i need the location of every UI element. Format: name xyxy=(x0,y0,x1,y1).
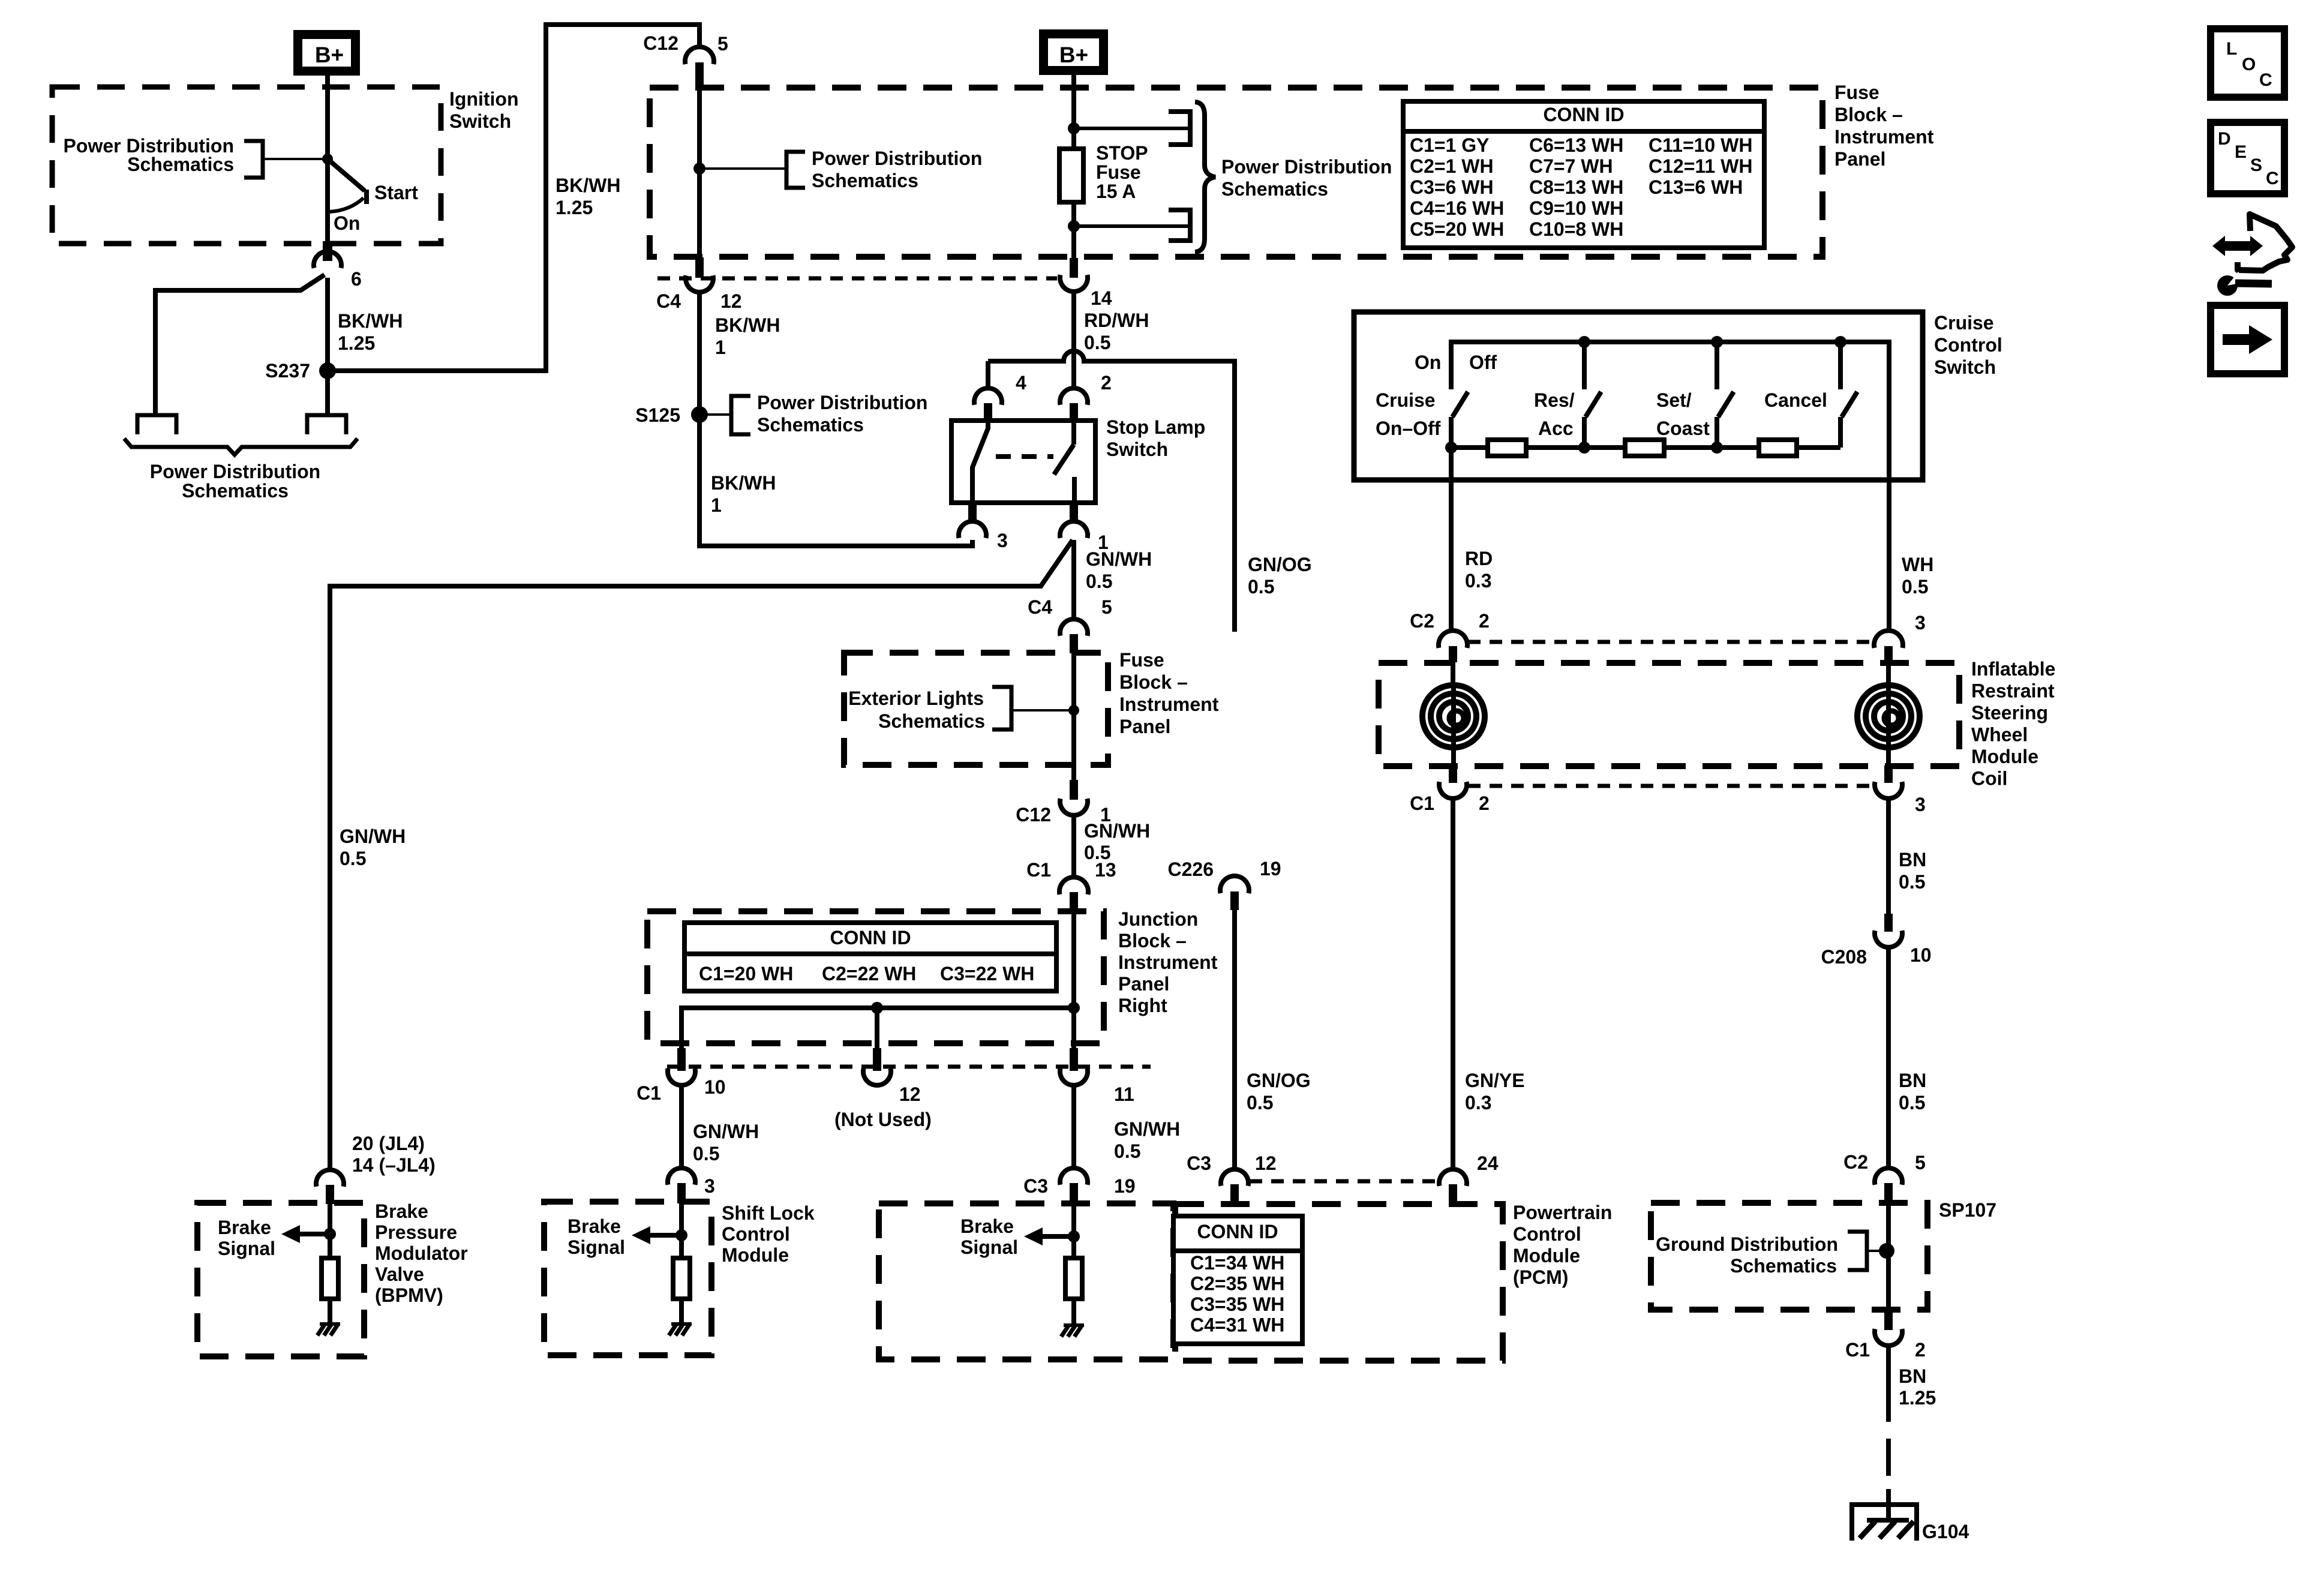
svg-text:Schematics: Schematics xyxy=(127,154,234,175)
power feed B+ (stop fuse) xyxy=(1044,34,1104,71)
svg-text:5: 5 xyxy=(1101,596,1112,618)
svg-text:On: On xyxy=(334,212,360,234)
power feed B+ (ignition switch) xyxy=(298,35,356,71)
svg-text:RD: RD xyxy=(1465,548,1493,569)
svg-text:12: 12 xyxy=(1255,1152,1277,1174)
svg-text:C4=16 WH: C4=16 WH xyxy=(1410,197,1504,219)
svg-text:Signal: Signal xyxy=(960,1236,1018,1258)
connector C12 pin 5 stub xyxy=(695,62,704,89)
svg-text:C1=1 GY: C1=1 GY xyxy=(1410,134,1490,156)
svg-text:Panel: Panel xyxy=(1118,973,1169,995)
svg-text:Coil: Coil xyxy=(1971,768,2007,789)
connector pair line junction block (dotted) xyxy=(667,1065,1151,1069)
svg-text:C4: C4 xyxy=(1028,596,1052,618)
svg-text:C3: C3 xyxy=(1187,1152,1211,1174)
wire bus mid drop xyxy=(875,1008,879,1049)
svg-text:S125: S125 xyxy=(635,404,680,426)
wire fuse bottom xyxy=(1071,202,1076,259)
svg-text:C1: C1 xyxy=(636,1082,661,1104)
svg-text:14: 14 xyxy=(1091,287,1112,309)
wire drop to pin 4 xyxy=(986,361,990,389)
connector pin 3 top stub xyxy=(1884,646,1893,662)
svg-text:Acc: Acc xyxy=(1538,418,1574,439)
wire branch to left terminal xyxy=(155,275,325,416)
wire to power distribution ref xyxy=(263,158,328,160)
coil module box (dashed) xyxy=(1379,663,1959,766)
resistor cruise 2 xyxy=(1625,440,1664,456)
node shift lock brake signal xyxy=(675,1229,687,1241)
coil right wire out xyxy=(1886,688,1891,766)
svg-text:C6=13 WH: C6=13 WH xyxy=(1529,134,1623,156)
stop lamp switch pole 2 blade xyxy=(1054,445,1074,475)
wire fuse bottom to connector bank xyxy=(1074,224,1190,228)
connector pair line coil top (dotted) xyxy=(1468,640,1873,644)
cruise top bus xyxy=(1451,342,1889,632)
connector C4 pin 5 (fuse block 2) xyxy=(1060,619,1088,636)
splice S125 xyxy=(691,406,708,423)
svg-text:G104: G104 xyxy=(1922,1521,1969,1542)
wire to ground (BPMV) xyxy=(328,1299,332,1325)
svg-text:Res/: Res/ xyxy=(1534,389,1575,411)
wire RD to coil xyxy=(1449,448,1454,632)
svg-text:GN/WH: GN/WH xyxy=(1084,820,1150,842)
svg-text:C1=34 WH: C1=34 WH xyxy=(1190,1252,1284,1274)
wire BN to G104 xyxy=(1886,1489,1891,1522)
arrow brake signal (middle) xyxy=(1024,1227,1043,1245)
wire C226 to C3-12 xyxy=(1232,910,1237,1169)
svg-text:CONN ID: CONN ID xyxy=(1543,104,1624,125)
svg-text:C12: C12 xyxy=(643,32,678,54)
svg-text:Module: Module xyxy=(1513,1245,1580,1266)
reference bracket (S125) xyxy=(731,396,750,434)
connector C2 pin 2 (dome) xyxy=(1439,631,1467,648)
splice SP107 xyxy=(1879,1243,1894,1259)
connector pin 3 bottom (cup) xyxy=(1875,782,1902,798)
connector C12 pin 1 (fuse block 2) xyxy=(1060,798,1088,815)
node cruise bottom bus 2 xyxy=(1578,442,1590,454)
reference bracket (ground distribution) xyxy=(1848,1232,1867,1270)
connector C4 pin 5 stub xyxy=(1070,634,1078,653)
svg-text:3: 3 xyxy=(1915,612,1926,634)
svg-text:0.5: 0.5 xyxy=(1086,571,1112,592)
svg-text:Cruise: Cruise xyxy=(1376,389,1436,411)
svg-text:Pressure: Pressure xyxy=(375,1221,457,1243)
svg-text:C9=10 WH: C9=10 WH xyxy=(1529,197,1623,219)
svg-text:BN: BN xyxy=(1899,849,1926,870)
ground G104 hatch 1 xyxy=(1860,1521,1875,1538)
reference bracket (power distribution) xyxy=(244,141,263,178)
connector pair line PCM (dotted) xyxy=(1250,1179,1438,1184)
svg-text:Signal: Signal xyxy=(218,1238,275,1259)
wire pin10 to shift lock xyxy=(679,1085,684,1169)
CONN ID table (fuse block) xyxy=(1403,101,1764,248)
fuse block 2 box (dashed) xyxy=(844,653,1108,765)
icon service pictogram arrow xyxy=(2212,236,2263,256)
cruise bottom bus xyxy=(1451,445,1840,450)
ground G104 hatch 2 xyxy=(1879,1521,1895,1538)
svg-text:Valve: Valve xyxy=(375,1263,424,1285)
node cruise bus 1 xyxy=(1578,336,1590,348)
svg-text:19: 19 xyxy=(1260,858,1281,879)
connector bank bracket upper xyxy=(1169,112,1190,145)
svg-text:0.3: 0.3 xyxy=(1465,570,1491,592)
connector pin 3 stub (stop lamp) xyxy=(968,503,977,521)
ground G104 frame xyxy=(1852,1505,1917,1541)
switch Cancel lower xyxy=(1838,417,1843,448)
brake signal module box (dashed) xyxy=(879,1203,1173,1359)
svg-text:GN/WH: GN/WH xyxy=(1086,548,1152,570)
wire S237 to C12 (up and over) xyxy=(328,25,699,371)
svg-text:1: 1 xyxy=(715,337,726,358)
wire cruise on-off lower xyxy=(1449,417,1454,481)
connector pair line C4 (dotted) xyxy=(657,277,1057,281)
coil right (spiral) xyxy=(1857,685,1920,748)
svg-text:Schematics: Schematics xyxy=(182,480,289,502)
svg-text:C208: C208 xyxy=(1821,946,1867,968)
connector pin 14 stub xyxy=(1070,258,1078,278)
svg-text:3: 3 xyxy=(997,530,1008,551)
svg-text:11: 11 xyxy=(1114,1083,1134,1105)
switch Res/Acc upper xyxy=(1582,342,1587,389)
svg-text:Schematics: Schematics xyxy=(1730,1255,1837,1277)
connector pin 2 (stop lamp) xyxy=(1060,388,1088,405)
svg-text:C5=20 WH: C5=20 WH xyxy=(1410,218,1504,240)
icon DESC box xyxy=(2211,122,2284,194)
svg-text:L: L xyxy=(2226,39,2237,59)
svg-text:Panel: Panel xyxy=(1119,716,1170,737)
wire to ground (middle) xyxy=(1071,1299,1076,1326)
svg-text:GN/OG: GN/OG xyxy=(1247,1070,1311,1091)
arrow brake signal (shift lock) xyxy=(632,1226,650,1244)
connector C1 pin 2 stub (SP107) xyxy=(1884,1311,1893,1330)
stop lamp switch pole 2 lower xyxy=(1072,477,1077,503)
connector C3 pin 12 stub xyxy=(1230,1184,1239,1204)
CONN ID table (junction block) xyxy=(684,923,1056,991)
svg-text:Panel: Panel xyxy=(1834,148,1885,170)
switch Res/Acc blade xyxy=(1586,392,1601,417)
resistor cruise 1 xyxy=(1488,440,1526,456)
connector C2 pin 5 stub xyxy=(1884,1183,1893,1203)
node cruise bus 3 xyxy=(1834,336,1846,348)
svg-text:5: 5 xyxy=(717,33,728,55)
node junction bus mid xyxy=(871,1002,883,1014)
connector C4 pin 12 (fuse block) xyxy=(686,275,713,292)
svg-text:Brake: Brake xyxy=(960,1215,1014,1237)
svg-text:C7=7 WH: C7=7 WH xyxy=(1529,155,1613,177)
svg-text:Schematics: Schematics xyxy=(878,710,985,732)
svg-text:Module: Module xyxy=(722,1244,789,1266)
connector BPMV (dome) xyxy=(316,1170,344,1187)
svg-text:Inflatable: Inflatable xyxy=(1971,658,2055,680)
connector C226 pin 19 stub xyxy=(1230,891,1239,910)
svg-text:C11=10 WH: C11=10 WH xyxy=(1649,134,1752,156)
svg-text:(PCM): (PCM) xyxy=(1513,1266,1568,1288)
svg-text:C12=11 WH: C12=11 WH xyxy=(1649,155,1752,177)
svg-text:Power Distribution: Power Distribution xyxy=(812,148,982,169)
svg-text:15 A: 15 A xyxy=(1096,181,1136,202)
node fuse bottom xyxy=(1068,220,1080,232)
svg-text:BN: BN xyxy=(1899,1070,1926,1091)
svg-text:GN/YE: GN/YE xyxy=(1465,1070,1525,1091)
ground distribution box (dashed) xyxy=(1651,1203,1927,1310)
connector C3 pin 19 stub xyxy=(1070,1183,1078,1203)
icon service pictogram outline xyxy=(2238,214,2292,271)
wire pin14 down xyxy=(1071,292,1076,389)
wire pin11 to C3-19 xyxy=(1071,1085,1076,1169)
svg-text:Right: Right xyxy=(1118,995,1167,1016)
stop lamp switch box xyxy=(951,421,1095,503)
switch Cancel blade xyxy=(1842,392,1857,417)
shift lock module box (dashed) xyxy=(544,1202,711,1355)
svg-text:Instrument: Instrument xyxy=(1118,951,1218,973)
ground G104 hatch 3 xyxy=(1898,1521,1914,1538)
svg-text:Instrument: Instrument xyxy=(1834,126,1934,148)
svg-text:C226: C226 xyxy=(1168,858,1214,880)
PCM box (dashed) xyxy=(1175,1204,1503,1361)
ground (shift lock module) xyxy=(671,1322,692,1326)
wire B+ to ignition switch xyxy=(325,76,330,161)
svg-text:BK/WH: BK/WH xyxy=(711,472,776,494)
svg-text:C2: C2 xyxy=(1843,1151,1868,1173)
connector pin 12 stub xyxy=(873,1048,881,1071)
svg-text:Control: Control xyxy=(722,1223,790,1245)
svg-text:Steering: Steering xyxy=(1971,702,2048,724)
svg-text:Powertrain: Powertrain xyxy=(1513,1202,1612,1223)
svg-text:Power Distribution: Power Distribution xyxy=(1221,156,1392,178)
coil left (spiral) xyxy=(1422,685,1485,748)
wire to ground (shift lock) xyxy=(679,1299,684,1325)
ignition switch box (dashed) xyxy=(52,87,441,244)
svg-text:Modulator: Modulator xyxy=(375,1242,468,1264)
svg-text:BN: BN xyxy=(1899,1365,1926,1387)
svg-text:C1: C1 xyxy=(1410,792,1434,814)
wire connector6 to S237 xyxy=(325,278,330,416)
connector C1 pin 13 stub xyxy=(1070,892,1078,911)
resistor cruise 3 xyxy=(1759,440,1797,456)
wire through fuse block 2 xyxy=(1071,653,1076,781)
connector pin 3 shift lock (dome) xyxy=(668,1168,695,1185)
svg-text:5: 5 xyxy=(1915,1152,1926,1173)
svg-text:Ignition: Ignition xyxy=(449,88,519,110)
switch Set/Coast lower xyxy=(1715,417,1719,448)
svg-text:Off: Off xyxy=(1469,352,1497,373)
connector 6 stub xyxy=(323,241,332,261)
svg-text:SP107: SP107 xyxy=(1939,1199,1996,1221)
svg-text:STOP: STOP xyxy=(1096,142,1148,164)
svg-text:0.5: 0.5 xyxy=(340,848,366,869)
icon service pictogram wrench xyxy=(2217,275,2238,296)
svg-text:C: C xyxy=(2259,70,2272,90)
coil right wire in xyxy=(1886,662,1891,688)
svg-text:Instrument: Instrument xyxy=(1119,694,1219,715)
svg-text:0.5: 0.5 xyxy=(1248,576,1274,598)
svg-text:Ground Distribution: Ground Distribution xyxy=(1656,1233,1838,1255)
stop lamp switch pole 2 upper xyxy=(1071,421,1076,445)
svg-text:C3: C3 xyxy=(1023,1175,1048,1197)
svg-text:Restraint: Restraint xyxy=(1971,680,2055,702)
svg-text:O: O xyxy=(2242,55,2256,74)
svg-text:C8=13 WH: C8=13 WH xyxy=(1529,176,1623,198)
switch Set/Coast blade xyxy=(1718,392,1734,417)
terminal to power distribution (left) xyxy=(137,415,176,434)
fuse block instrument panel box (dashed) xyxy=(650,88,1822,257)
svg-text:0.5: 0.5 xyxy=(1084,332,1110,353)
wire to exterior lights ref xyxy=(1011,709,1074,712)
svg-text:Wheel: Wheel xyxy=(1971,724,2028,746)
connector C12 pin 1 stub xyxy=(1070,780,1078,800)
svg-text:1.25: 1.25 xyxy=(338,332,375,354)
connector C208 pin 10 (cup) xyxy=(1875,930,1902,947)
connector pin 1 (stop lamp) xyxy=(1060,521,1088,538)
svg-text:Schematics: Schematics xyxy=(757,414,864,436)
wire C1-13 into junction bus xyxy=(1071,911,1076,1009)
wire C208 to C2-5 xyxy=(1886,947,1891,1169)
svg-text:0.5: 0.5 xyxy=(1114,1140,1140,1162)
ignition switch blade to Start xyxy=(328,159,365,191)
connector C2 pin 2 stub xyxy=(1449,646,1457,662)
reference bracket (exterior lights) xyxy=(992,687,1011,730)
svg-text:BK/WH: BK/WH xyxy=(556,175,620,196)
svg-text:0.5: 0.5 xyxy=(1902,576,1928,598)
switch Cruise On-Off blade xyxy=(1452,392,1468,417)
svg-text:(BPMV): (BPMV) xyxy=(375,1284,443,1306)
connector C1 pin 13 (junction block) xyxy=(1059,877,1088,894)
svg-text:Start: Start xyxy=(374,182,418,203)
svg-text:Block –: Block – xyxy=(1834,104,1903,125)
wire C4-12 to stop lamp switch xyxy=(699,292,972,546)
icon arrow box xyxy=(2211,305,2284,374)
svg-text:S237: S237 xyxy=(265,360,310,382)
svg-text:4: 4 xyxy=(1016,372,1026,394)
wire to power distribution ref (S125) xyxy=(699,413,731,416)
fuse STOP 15A xyxy=(1059,149,1083,202)
svg-text:C3=35 WH: C3=35 WH xyxy=(1190,1293,1284,1315)
svg-text:Block –: Block – xyxy=(1118,930,1187,951)
svg-text:WH: WH xyxy=(1902,554,1933,575)
svg-text:C3=6 WH: C3=6 WH xyxy=(1410,176,1494,198)
connector C4 pin 12 stub xyxy=(695,257,704,278)
svg-text:Schematics: Schematics xyxy=(812,170,918,191)
svg-text:0.5: 0.5 xyxy=(1899,1092,1925,1113)
svg-text:1.25: 1.25 xyxy=(1899,1387,1936,1409)
connector C208 pin 10 stub xyxy=(1884,914,1893,932)
wire through SP107 xyxy=(1886,1203,1891,1313)
svg-text:GN/OG: GN/OG xyxy=(1248,554,1312,575)
svg-text:Junction: Junction xyxy=(1118,908,1198,930)
svg-text:Control: Control xyxy=(1513,1223,1581,1245)
wire pin1 branch diagonal xyxy=(330,540,1073,1171)
junction block box (dashed) xyxy=(647,911,1104,1043)
connector pin 12 (not used) xyxy=(863,1068,891,1085)
svg-text:10: 10 xyxy=(704,1076,726,1098)
wire C12-1 to C1-13 xyxy=(1071,815,1076,878)
svg-text:RD/WH: RD/WH xyxy=(1084,310,1149,331)
wire shift lock internal xyxy=(679,1203,684,1258)
svg-text:Cancel: Cancel xyxy=(1764,389,1827,411)
svg-text:C2=22 WH: C2=22 WH xyxy=(822,963,916,984)
svg-text:Brake: Brake xyxy=(375,1200,428,1222)
CONN ID table (PCM) xyxy=(1173,1216,1302,1344)
wire BN to C208 xyxy=(1886,798,1891,915)
svg-text:1.25: 1.25 xyxy=(556,197,593,218)
svg-text:E: E xyxy=(2235,142,2247,162)
connector C1 pin 10 stub xyxy=(677,1048,686,1071)
svg-text:Cruise: Cruise xyxy=(1934,312,1994,334)
svg-text:12: 12 xyxy=(720,290,742,312)
connector pin 24 stub xyxy=(1449,1184,1457,1204)
svg-text:Exterior Lights: Exterior Lights xyxy=(848,688,984,709)
resistor (shift lock) xyxy=(673,1258,690,1299)
svg-text:CONN ID: CONN ID xyxy=(830,927,911,948)
svg-text:Power Distribution: Power Distribution xyxy=(150,461,320,482)
stop lamp switch pole 1 xyxy=(972,421,988,503)
connector C12 pin 5 (fuse block) xyxy=(685,47,714,64)
wire to ground distribution ref xyxy=(1867,1250,1887,1252)
connector pin 3 top (dome) xyxy=(1874,631,1903,648)
svg-text:0.3: 0.3 xyxy=(1465,1092,1491,1113)
svg-text:C2: C2 xyxy=(1410,610,1434,632)
connector C1 pin 10 (junction block) xyxy=(668,1068,695,1085)
svg-text:24: 24 xyxy=(1477,1152,1499,1174)
node exterior lights tap xyxy=(1068,705,1079,716)
switch Cancel upper xyxy=(1838,342,1843,389)
BPMV box (dashed) xyxy=(197,1203,364,1356)
svg-text:C1: C1 xyxy=(1026,859,1051,881)
wire pin1 to C4-5 xyxy=(1071,540,1076,620)
connector pin 3 shift lock stub xyxy=(677,1183,686,1203)
connector C1 pin 2 (SP107 cup) xyxy=(1875,1329,1902,1346)
svg-text:0.5: 0.5 xyxy=(1247,1092,1273,1113)
node cruise bus 2 xyxy=(1711,336,1723,348)
svg-text:On–Off: On–Off xyxy=(1376,418,1441,439)
svg-text:Module: Module xyxy=(1971,746,2038,767)
svg-text:C2=1 WH: C2=1 WH xyxy=(1410,155,1494,177)
connector pin 14 (fuse block) xyxy=(1060,275,1088,292)
svg-text:S: S xyxy=(2250,155,2262,175)
brace power distribution (fuse) xyxy=(1195,102,1215,252)
svg-text:6: 6 xyxy=(351,268,362,290)
svg-text:C3=22 WH: C3=22 WH xyxy=(940,963,1034,984)
node fuse top xyxy=(1068,122,1080,134)
svg-text:C12: C12 xyxy=(1016,804,1051,825)
ground (middle brake module) xyxy=(1064,1323,1084,1327)
node cruise bottom bus 1 xyxy=(1445,442,1457,454)
wire fuse top to connector bank xyxy=(1074,127,1190,130)
svg-text:B+: B+ xyxy=(1059,43,1088,67)
svg-text:14 (–JL4): 14 (–JL4) xyxy=(352,1154,436,1176)
arrow brake signal (BPMV) xyxy=(281,1225,300,1243)
svg-text:12: 12 xyxy=(899,1083,921,1105)
junction block bus xyxy=(681,1008,1074,1049)
svg-text:C: C xyxy=(2266,169,2279,188)
connector C1 pin 2 (cup) xyxy=(1439,782,1467,798)
svg-text:C1=20 WH: C1=20 WH xyxy=(699,963,793,984)
switch travel arc xyxy=(329,198,364,212)
connector bank bracket lower xyxy=(1169,210,1190,241)
svg-text:Switch: Switch xyxy=(449,110,511,132)
icon LOC box xyxy=(2211,29,2284,97)
svg-text:On: On xyxy=(1415,352,1441,373)
svg-text:Stop Lamp: Stop Lamp xyxy=(1106,416,1205,438)
svg-text:2: 2 xyxy=(1479,792,1490,814)
connector C2 pin 5 (dome) xyxy=(1875,1168,1902,1185)
svg-text:BK/WH: BK/WH xyxy=(715,314,780,336)
connector pin 3 (stop lamp) xyxy=(959,521,986,538)
node junction bus right xyxy=(1068,1002,1080,1014)
wire C12-5 to C4-12 xyxy=(697,88,702,259)
svg-text:3: 3 xyxy=(1915,794,1926,815)
svg-text:2: 2 xyxy=(1915,1339,1926,1361)
